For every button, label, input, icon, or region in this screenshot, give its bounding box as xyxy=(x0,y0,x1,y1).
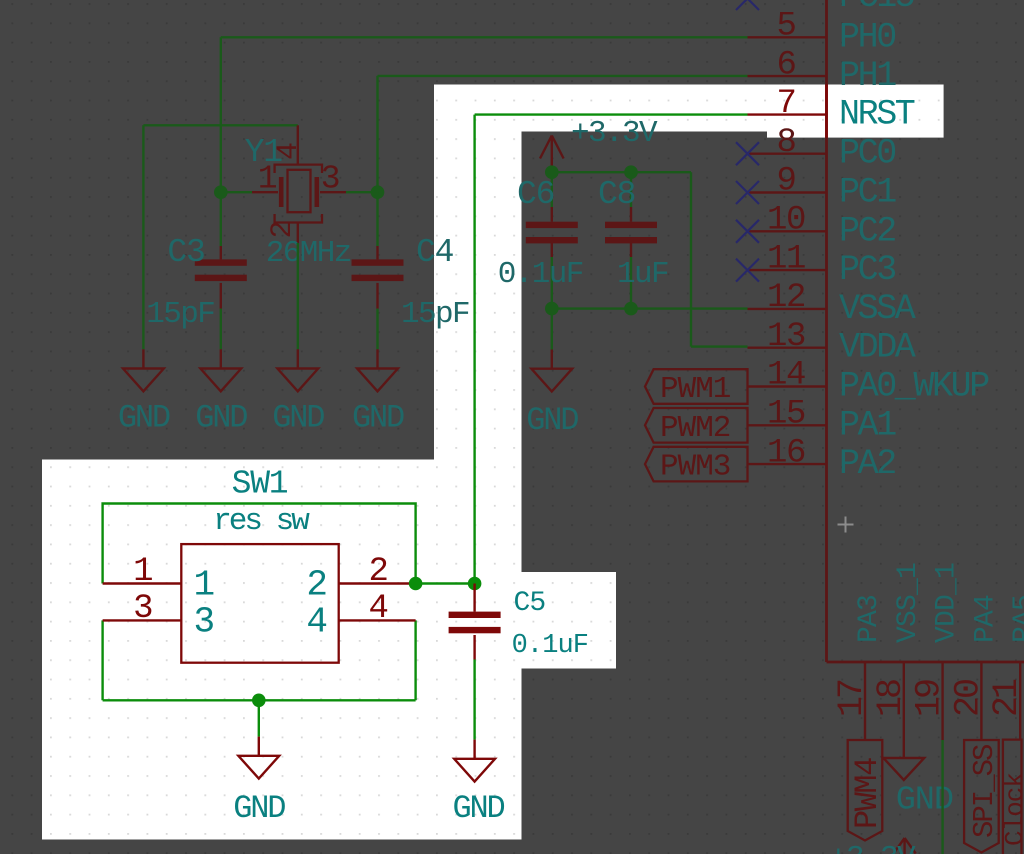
pin 14 stub of U1 xyxy=(748,385,827,387)
pin name 4 inside SW1 xyxy=(306,602,326,643)
pin number 21 of U1 xyxy=(987,679,1024,717)
text GND3 label xyxy=(195,400,247,437)
pin number 3 of SW1 xyxy=(133,590,152,628)
svg-text:res sw: res sw xyxy=(213,504,310,539)
svg-text:GND: GND xyxy=(272,400,324,437)
wire SW1 pin3 down (highlighted) xyxy=(101,620,103,700)
crystal Y1 symbol xyxy=(252,125,346,243)
wire SW1 pin1 to pin2 loop (highlighted) xyxy=(103,504,416,584)
svg-text:PWM4: PWM4 xyxy=(849,758,886,829)
pin name PA1 of U1 xyxy=(839,405,896,445)
pin name PC15 of U1 (cut at top) xyxy=(839,0,914,17)
pin name 2 inside SW1 xyxy=(306,565,326,606)
wire crystal case net (pin 4 up and left to GND) xyxy=(143,125,297,349)
text GND2 label xyxy=(272,400,324,437)
svg-text:4: 4 xyxy=(368,590,387,628)
svg-text:C4: C4 xyxy=(416,234,454,271)
pin name PA5 of U1 xyxy=(1009,595,1024,643)
wire C4 to GND xyxy=(376,309,378,350)
pin name VSSA of U1 xyxy=(839,289,916,329)
node F junction (C8 / GND rail) xyxy=(624,302,638,316)
ground GND7 (SW1) xyxy=(238,737,279,779)
svg-text:NRST: NRST xyxy=(839,95,915,135)
svg-text:PC15: PC15 xyxy=(839,0,914,17)
pin number 8 of U1 xyxy=(776,124,795,162)
svg-text:PWM3: PWM3 xyxy=(660,450,730,485)
pin number 7 of U1 (highlighted) xyxy=(776,85,795,123)
text GND8 label xyxy=(452,790,504,827)
wire crystal pin3 link xyxy=(346,191,378,193)
svg-text:PWM1: PWM1 xyxy=(660,372,731,407)
pin number 2 of SW1 xyxy=(368,553,387,591)
node C junction (+3.3V / C6) xyxy=(545,165,559,179)
svg-text:PA1: PA1 xyxy=(839,405,896,445)
svg-text:C8: C8 xyxy=(598,176,635,213)
svg-text:0.1uF: 0.1uF xyxy=(512,631,589,661)
pin name PC0 of U1 xyxy=(839,134,895,174)
pin name 1 inside SW1 xyxy=(194,565,214,606)
wire crystal pin2 to GND xyxy=(297,243,299,349)
ground GND3 (C3) xyxy=(200,349,241,391)
pin number 13 of U1 xyxy=(767,318,805,356)
wire crystal pin1 link xyxy=(221,191,252,193)
svg-text:18: 18 xyxy=(871,680,911,717)
text +3.3V label (bottom, cut) xyxy=(829,841,916,854)
text +3.3V label xyxy=(571,116,658,151)
svg-text:16: 16 xyxy=(767,434,805,472)
svg-text:GND: GND xyxy=(526,402,578,439)
power +3.3V symbol (decoupling rail) xyxy=(540,136,564,173)
pin 21 stub of U1 xyxy=(1019,662,1021,740)
svg-text:1: 1 xyxy=(194,565,214,606)
hierarchical label PWM1 xyxy=(645,369,748,407)
svg-text:10: 10 xyxy=(767,202,805,240)
no-connect X on pin 10 xyxy=(736,220,759,243)
text C5 reference xyxy=(514,588,546,619)
pin name PC2 of U1 xyxy=(839,211,895,251)
wire C8 to GND rail xyxy=(630,257,632,309)
symbol anchor cross of U1 xyxy=(838,517,854,533)
svg-text:2: 2 xyxy=(306,565,326,606)
pin number 17 of U1 xyxy=(832,680,872,717)
ground GND4 (C4) xyxy=(357,349,398,391)
svg-text:PA4: PA4 xyxy=(970,595,1001,643)
wire SW1 pin4 down (highlighted) xyxy=(414,620,416,700)
svg-text:3: 3 xyxy=(321,161,340,198)
pin number 20 of U1 xyxy=(948,680,988,717)
svg-text:PA3: PA3 xyxy=(854,595,885,643)
pin name VDD_1 of U1 xyxy=(932,563,963,643)
svg-text:PA0_WKUP: PA0_WKUP xyxy=(839,367,989,407)
svg-text:26MHz: 26MHz xyxy=(266,236,351,271)
pin number 3 of Y1 xyxy=(321,161,340,198)
svg-text:0.1uF: 0.1uF xyxy=(498,257,583,292)
hierarchical label PWM4 xyxy=(848,740,886,841)
svg-text:SPI_SS: SPI_SS xyxy=(968,745,1001,838)
wire NRST net vertical (highlighted) xyxy=(473,115,475,584)
svg-text:VSSA: VSSA xyxy=(839,289,916,329)
svg-text:13: 13 xyxy=(767,318,805,356)
text C8 value 1uF xyxy=(617,257,668,292)
svg-text:15pF: 15pF xyxy=(401,297,469,332)
no-connect X on pin 4 (cut at top) xyxy=(736,0,759,10)
wire PH0 net (pin 5 to crystal left node) xyxy=(221,37,748,192)
text C3 reference xyxy=(167,234,204,271)
pin 13 stub of U1 xyxy=(748,347,827,349)
hierarchical label PWM2 xyxy=(645,408,748,446)
pin name NRST of U1 (highlighted) xyxy=(839,95,915,135)
svg-text:VDDA: VDDA xyxy=(839,328,916,368)
pin name VSS_1 of U1 xyxy=(893,563,924,643)
svg-text:PC1: PC1 xyxy=(839,173,896,213)
ground GND8 (C5) xyxy=(454,740,495,782)
wire SW1 GND stub xyxy=(258,700,260,736)
wire C5 to GND xyxy=(473,660,475,740)
node H junction (NRST / C5) xyxy=(468,577,482,591)
svg-text:+3.3V: +3.3V xyxy=(829,841,916,854)
svg-text:+3.3V: +3.3V xyxy=(571,116,658,151)
text Y1 reference xyxy=(245,134,283,171)
svg-text:8: 8 xyxy=(776,124,795,162)
wire C3 to GND xyxy=(220,309,222,350)
svg-text:4: 4 xyxy=(306,602,326,643)
svg-text:PA2: PA2 xyxy=(839,444,895,484)
pin name PA4 of U1 xyxy=(970,595,1001,643)
highlight halo background xyxy=(42,85,944,840)
wire +3.3V node to C6 xyxy=(551,172,553,207)
text GND6 label xyxy=(896,782,953,820)
wire +3.3V node to C8 xyxy=(630,172,632,207)
svg-text:VSS_1: VSS_1 xyxy=(893,563,924,643)
svg-text:21: 21 xyxy=(987,679,1024,717)
text SW1 reference xyxy=(232,466,288,503)
pin number 19 of U1 xyxy=(910,680,950,717)
pin number 1 of SW1 xyxy=(133,553,152,591)
capacitor C6 xyxy=(526,207,578,257)
pin 8 stub of U1 xyxy=(748,152,827,154)
text C4 value 15pF xyxy=(401,297,469,332)
svg-text:C3: C3 xyxy=(167,234,204,271)
pin number 4 of SW1 xyxy=(368,590,387,628)
svg-text:12: 12 xyxy=(767,279,805,317)
pin number 9 of U1 xyxy=(776,163,795,201)
pin number 4 of Y1 xyxy=(272,143,306,160)
capacitor C5 xyxy=(449,584,501,660)
svg-text:1: 1 xyxy=(133,553,152,591)
capacitor C4 xyxy=(352,246,404,309)
svg-text:PA5: PA5 xyxy=(1009,595,1024,643)
pin name PC3 of U1 xyxy=(839,250,895,290)
no-connect X on pin 8 xyxy=(736,142,759,165)
svg-text:PWM2: PWM2 xyxy=(660,411,730,446)
pin number 6 of U1 xyxy=(776,46,795,84)
pin 17 stub of U1 xyxy=(864,662,866,740)
svg-text:Clock: Clock xyxy=(1000,773,1024,846)
svg-text:VDD_1: VDD_1 xyxy=(932,563,963,643)
hierarchical label SPI_SS xyxy=(964,740,1001,853)
text C3 value 15pF xyxy=(146,297,214,332)
pin 5 stub of U1 xyxy=(748,36,827,38)
pin number 18 of U1 xyxy=(871,680,911,717)
no-connect X on pin 9 xyxy=(736,181,759,204)
pin number 5 of U1 xyxy=(776,8,795,46)
pin number 16 of U1 xyxy=(767,434,805,472)
svg-text:14: 14 xyxy=(767,357,805,395)
svg-text:17: 17 xyxy=(832,680,872,717)
pin name 3 inside SW1 xyxy=(194,602,214,643)
svg-text:PH1: PH1 xyxy=(839,56,896,96)
pin name PA0_WKUP of U1 xyxy=(839,367,989,407)
hierarchical label Clock xyxy=(1000,740,1024,854)
capacitor C8 xyxy=(605,207,657,257)
wire SW1 bottom GND rail (highlighted) xyxy=(103,699,416,701)
pin 19 stub of U1 xyxy=(941,662,943,740)
pin number 15 of U1 xyxy=(767,396,805,434)
ground GND1 (crystal case left) xyxy=(123,349,164,391)
hierarchical label PWM3 xyxy=(645,447,748,485)
svg-text:GND: GND xyxy=(352,400,404,437)
switch SW1 body xyxy=(103,544,416,663)
pin name VDDA of U1 xyxy=(839,328,916,368)
power +3.3V symbol (bottom, cut) xyxy=(894,838,916,854)
text GND4 label xyxy=(352,400,404,437)
text GND5 label xyxy=(526,402,578,439)
text C6 reference xyxy=(517,176,554,213)
IC U1 left border xyxy=(825,0,828,662)
svg-text:2: 2 xyxy=(368,553,387,591)
svg-text:1uF: 1uF xyxy=(617,257,668,292)
wire node B to C4 xyxy=(376,192,378,246)
pin 12 stub of U1 xyxy=(748,308,827,310)
text C6 value 0.1uF xyxy=(498,257,583,292)
wire VDD_1 down (pin 19) xyxy=(941,740,943,854)
pin number 2 of Y1 xyxy=(266,221,300,238)
svg-text:7: 7 xyxy=(776,85,795,123)
node G junction (SW1 pin2 / wire) xyxy=(409,577,423,591)
pin number 11 of U1 xyxy=(767,240,805,278)
pin name PA2 of U1 xyxy=(839,444,895,484)
node D junction (+3.3V / C8) xyxy=(624,165,638,179)
svg-text:15pF: 15pF xyxy=(146,297,214,332)
text res sw value xyxy=(213,504,310,539)
wire PH1 net (pin 6 to crystal right node) xyxy=(378,76,748,192)
svg-text:PH0: PH0 xyxy=(839,17,895,57)
pin 18 stub of U1 xyxy=(903,662,905,740)
node E junction (C6 / GND rail) xyxy=(545,302,559,316)
IC U1 bottom border xyxy=(827,661,1024,664)
svg-text:3: 3 xyxy=(194,602,214,643)
svg-text:19: 19 xyxy=(910,680,950,717)
wire VSSA rail xyxy=(552,307,748,309)
pin name PC1 of U1 xyxy=(839,173,896,213)
pin name PH0 of U1 xyxy=(839,17,895,57)
ground GND5 (C6/C8) xyxy=(531,350,572,392)
text GND7 label xyxy=(233,790,285,827)
pin 7 stub of U1 (highlighted) xyxy=(748,113,827,115)
wire SW1 pin2 to NRST node xyxy=(416,582,475,584)
svg-text:9: 9 xyxy=(776,163,795,201)
wire +3.3V rail to VDDA xyxy=(552,172,748,346)
pin name PA3 of U1 xyxy=(854,595,885,643)
svg-text:11: 11 xyxy=(767,240,805,278)
node I junction (SW1 GND rail) xyxy=(252,694,266,708)
wire C6 to GND rail xyxy=(551,257,553,309)
svg-text:Y1: Y1 xyxy=(245,134,283,171)
node A junction (crystal pin1 / C3 / PH0) xyxy=(214,185,228,199)
pin number 12 of U1 xyxy=(767,279,805,317)
ground GND6 (pin 18 VSS_1) xyxy=(883,740,924,780)
pin name PH1 of U1 xyxy=(839,56,896,96)
svg-text:GND: GND xyxy=(896,782,953,820)
pin 20 stub of U1 xyxy=(980,662,982,740)
pin 10 stub of U1 xyxy=(748,230,827,232)
pin number 14 of U1 xyxy=(767,357,805,395)
svg-text:GND: GND xyxy=(452,790,504,827)
pin 6 stub of U1 xyxy=(748,75,827,77)
text C8 reference xyxy=(598,176,635,213)
text 26MHz value xyxy=(266,236,351,271)
pin 15 stub of U1 xyxy=(748,424,827,426)
text C5 value 0.1uF xyxy=(512,631,589,661)
svg-text:C6: C6 xyxy=(517,176,554,213)
pin 16 stub of U1 xyxy=(748,463,827,465)
capacitor C3 xyxy=(195,246,247,309)
wire node A to C3 xyxy=(220,192,222,246)
svg-text:15: 15 xyxy=(767,396,805,434)
node B junction (crystal pin3 / C4 / PH1) xyxy=(371,185,385,199)
svg-text:GND: GND xyxy=(233,790,285,827)
svg-text:6: 6 xyxy=(776,46,795,84)
svg-text:GND: GND xyxy=(195,400,247,437)
svg-text:GND: GND xyxy=(118,400,170,437)
wire NRST net horizontal (highlighted) xyxy=(475,113,748,115)
svg-text:C5: C5 xyxy=(514,588,546,619)
svg-text:PC3: PC3 xyxy=(839,250,895,290)
no-connect X on pin 11 xyxy=(736,259,759,282)
IC U1 border segment (highlighted) xyxy=(825,85,828,138)
text C4 reference xyxy=(416,234,454,271)
svg-text:20: 20 xyxy=(948,680,988,717)
text GND1 label xyxy=(118,400,170,437)
svg-text:5: 5 xyxy=(776,8,795,46)
svg-text:SW1: SW1 xyxy=(232,466,288,503)
pin 9 stub of U1 xyxy=(748,191,827,193)
pin 11 stub of U1 xyxy=(748,269,827,271)
ground GND2 (crystal pin2) xyxy=(277,349,318,391)
pin number 1 of Y1 xyxy=(258,161,277,198)
wire C6 to GND xyxy=(551,309,553,350)
svg-text:3: 3 xyxy=(133,590,152,628)
pin number 10 of U1 xyxy=(767,202,805,240)
svg-text:PC2: PC2 xyxy=(839,211,895,251)
svg-text:PC0: PC0 xyxy=(839,134,895,174)
